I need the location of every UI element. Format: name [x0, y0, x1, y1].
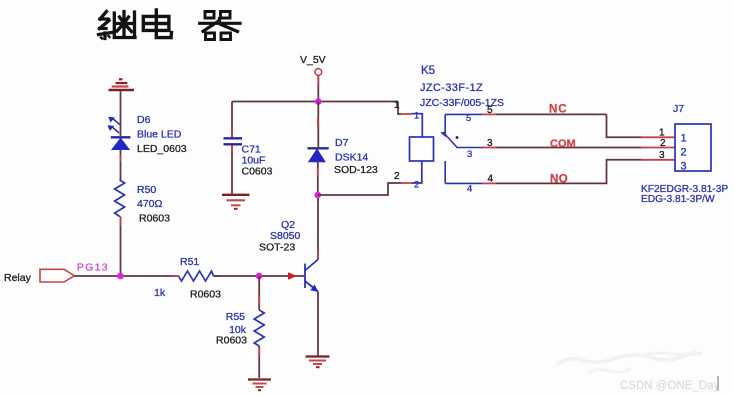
LED arrows: [113, 118, 120, 124]
svg-text:K5: K5: [421, 65, 435, 77]
svg-text:1: 1: [394, 100, 400, 111]
NO net wire: [496, 160, 642, 184]
svg-text:D6: D6: [137, 114, 151, 126]
svg-text:1: 1: [681, 133, 687, 145]
J7 box: [675, 124, 711, 171]
junction PG13: [117, 273, 124, 280]
NC net wire: [496, 113, 607, 115]
COM lead pin3: [457, 147, 483, 149]
svg-text:R51: R51: [180, 256, 199, 268]
svg-text:CSDN @ONE_Day: CSDN @ONE_Day: [620, 380, 719, 392]
port symbol: [40, 269, 75, 282]
svg-text:JZC-33F/005-1ZS: JZC-33F/005-1ZS: [420, 97, 504, 109]
junction bus: [315, 98, 322, 105]
svg-text:2: 2: [394, 171, 400, 182]
wire R55 to ground: [258, 346, 260, 378]
wire R55 branch down: [258, 276, 260, 310]
junction R55: [256, 273, 263, 280]
wire Q2 emitter to ground: [317, 292, 319, 357]
wire V_5V down to bus: [317, 76, 319, 102]
svg-text:3: 3: [659, 150, 665, 161]
wire R50 to junction: [120, 217, 122, 277]
svg-text:PG13: PG13: [77, 262, 109, 274]
watermark scribble: [556, 353, 702, 365]
power bar symbol (top of D6 branch): [109, 79, 135, 90]
svg-text:2: 2: [660, 138, 666, 149]
电: [143, 10, 171, 38]
svg-text:5: 5: [466, 113, 471, 124]
svg-text:R0603: R0603: [216, 335, 247, 347]
wire D7 to node: [317, 162, 319, 195]
wire port to junction to R51: [75, 275, 179, 277]
title 继电器: [99, 10, 241, 40]
svg-text:4: 4: [488, 174, 494, 185]
svg-text:1: 1: [414, 111, 419, 122]
svg-text:LED_0603: LED_0603: [137, 143, 187, 155]
svg-text:SOT-23: SOT-23: [259, 242, 295, 254]
wire bus to C71: [231, 102, 233, 138]
wire bus corner to relay coil pin1: [398, 102, 401, 115]
capacitor C71: [224, 137, 243, 139]
svg-text:NO: NO: [550, 174, 568, 186]
LED D6: [108, 117, 131, 150]
wire bus to D7: [317, 102, 319, 149]
wire R51 to Q2 base: [214, 275, 305, 277]
armature blade: [445, 134, 458, 148]
svg-text:C0603: C0603: [242, 166, 273, 178]
继 left radical: [99, 12, 112, 39]
svg-text:R0603: R0603: [190, 289, 221, 301]
NC lead pin5: [445, 114, 482, 133]
ground (R55): [248, 380, 271, 391]
svg-text:1: 1: [659, 128, 665, 139]
svg-text:NC: NC: [549, 104, 568, 116]
relay K5 switch: [445, 114, 482, 183]
svg-text:J7: J7: [673, 103, 684, 115]
svg-text:3: 3: [487, 138, 493, 149]
svg-text:R50: R50: [137, 184, 156, 196]
wire power to D6: [120, 91, 122, 136]
bus wire: [232, 101, 398, 103]
connector J7 pins: [641, 136, 675, 138]
armature dot: [456, 136, 459, 139]
wire C71 to ground: [231, 144, 233, 193]
svg-text:2: 2: [414, 180, 419, 191]
svg-text:R0603: R0603: [139, 213, 170, 225]
svg-text:Relay: Relay: [4, 272, 32, 284]
svg-text:DSK14: DSK14: [335, 152, 368, 164]
resistor R50: [115, 180, 125, 217]
wire node to relay coil pin2: [318, 183, 401, 195]
transistor Q2: [305, 260, 318, 292]
svg-text:V_5V: V_5V: [300, 54, 326, 66]
node junction D7/Q2/K5: [315, 192, 322, 199]
svg-text:470Ω: 470Ω: [137, 198, 163, 210]
resistor R55: [254, 310, 264, 346]
svg-text:2: 2: [681, 147, 687, 159]
relay K5 coil: [410, 114, 434, 183]
COM net wire: [496, 147, 642, 149]
svg-text:SOD-123: SOD-123: [334, 164, 378, 176]
wire Q2 collector up to node: [317, 195, 319, 260]
svg-text:4: 4: [467, 184, 472, 195]
svg-text:COM: COM: [550, 138, 576, 150]
resistor R51: [179, 271, 214, 281]
svg-text:D7: D7: [335, 137, 349, 149]
armature pivot wedge: [440, 131, 446, 137]
wire LED to R50: [120, 150, 122, 181]
svg-text:JZC-33F-1Z: JZC-33F-1Z: [420, 82, 483, 94]
ground (Q2): [306, 357, 330, 368]
svg-text:Blue LED: Blue LED: [137, 129, 182, 141]
svg-text:R55: R55: [226, 311, 245, 323]
svg-text:S8050: S8050: [270, 230, 301, 242]
red arrow on base wire: [288, 272, 297, 280]
ground (C71): [222, 195, 250, 209]
NO lead pin4: [445, 161, 482, 183]
器: [205, 12, 230, 19]
svg-text:EDG-3.81-3P/W: EDG-3.81-3P/W: [641, 194, 715, 205]
svg-text:3: 3: [681, 161, 687, 173]
Q2 emitter arrow: [310, 285, 318, 292]
svg-text:3: 3: [467, 149, 472, 160]
diode D7: [308, 148, 329, 162]
继 right part: [114, 12, 135, 38]
switch pin stubs: [482, 113, 496, 115]
svg-text:1k: 1k: [154, 287, 166, 299]
